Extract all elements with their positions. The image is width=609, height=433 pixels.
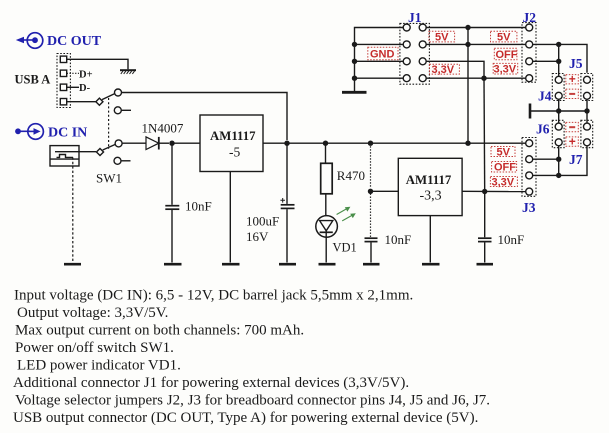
connector J4 (dotted outline) [552,74,564,101]
wire SW1 pole A to 5V rail (top run) [122,93,288,141]
wire 3,3V rail [462,190,525,192]
gnd line terminal bar [529,104,532,119]
wire junction to U1 input [172,142,200,144]
svg-text:USB output connector (DC OUT,: USB output connector (DC OUT, Type A) fo… [13,410,478,426]
switch SW1 pole A [96,98,103,105]
svg-text:D-: D- [79,83,91,94]
wire J4 pin2 to gnd line [558,99,560,111]
wire J1 row4 to J2 pin4 (3,3V) [426,77,526,79]
svg-text:J6: J6 [536,122,550,137]
svg-text:GND: GND [370,49,395,61]
svg-text:Input voltage (DC IN): 6,5 - 1: Input voltage (DC IN): 6,5 - 12V, DC bar… [14,288,413,304]
svg-text:1N4007: 1N4007 [142,121,184,136]
connector X1 DC barrel jack [50,146,79,166]
svg-text:5V: 5V [497,146,511,158]
svg-text:16V: 16V [246,229,269,244]
wire USB pin1 to shield ground [67,59,128,69]
wire 5V rail to U2 input (dotted drop) [370,143,372,188]
DC IN port symbol [15,124,43,140]
svg-text:+: + [569,72,576,86]
5V label (J3) [491,147,515,157]
3,3V label (J1 side) [430,64,460,74]
capacitor C1 10nF [171,143,173,205]
svg-text:LED power indicator VD1.: LED power indicator VD1. [17,358,181,374]
wire J3 pin2 to output net [533,158,559,160]
svg-text:+: + [569,134,576,148]
svg-text:AM1117: AM1117 [210,129,256,143]
svg-text:VD1: VD1 [333,241,357,255]
wire J1 row1 to J2 pin1 (5V) [426,27,526,29]
description text block [13,288,490,427]
connector J5 (dotted outline) [581,74,593,101]
svg-text:5V: 5V [435,32,449,44]
node R470 junction [323,141,328,146]
3,3V label (J2) [493,63,518,74]
node output net junctions (top) [556,42,561,47]
switch SW1 pole B [96,148,103,155]
ground (C4) [477,263,494,266]
wire J2 pin3 to J4 [533,60,559,62]
svg-text:Output voltage: 3,3V/5V.: Output voltage: 3,3V/5V. [17,305,168,321]
connector J7 (dotted outline) [581,120,593,147]
ground (C2) [279,263,296,266]
svg-text:Voltage selector jumpers J2, J: Voltage selector jumpers J2, J3 for brea… [15,393,490,409]
wire USB pin4 to SW1 pole A [67,101,96,103]
svg-text:J3: J3 [522,200,536,215]
node 3,3V tap junction [481,76,486,81]
wire 5V rail [263,142,526,144]
USB pin 1 [60,56,66,62]
GND label [368,47,398,60]
svg-text:J1: J1 [408,10,422,25]
svg-text:-3,3: -3,3 [420,189,442,204]
USB pin 4 [60,99,66,105]
connector J1 (2x4 header, dotted outline) [400,23,430,84]
USB pin 3 (D-) [60,84,66,90]
svg-text:AM1117: AM1117 [406,173,452,187]
capacitor C4 10nF [484,192,486,238]
node 5V rail junction [465,141,470,146]
svg-text:J4: J4 [538,89,552,104]
wire J7 pin2 to J3 row3 [559,146,587,176]
wire J3 pin3 to output net [533,174,559,176]
svg-text:10nF: 10nF [185,199,212,214]
plus label (J6/J7) [566,137,579,146]
svg-text:DC OUT: DC OUT [47,34,102,49]
wire J6 pin1 to gnd line [558,111,560,123]
plus label (J4/J5) [566,75,579,84]
wire mid gnd line [530,110,587,112]
svg-text:Power on/off switch SW1.: Power on/off switch SW1. [15,340,174,356]
svg-text:D+: D+ [79,69,93,80]
node C4 junction [482,189,487,194]
wire J6 pin2 to J3 row2 [558,146,560,159]
svg-text:DC IN: DC IN [48,126,87,141]
svg-text:10nF: 10nF [498,232,525,247]
svg-text:USB A: USB A [15,73,51,87]
5V label (J1 side) [429,31,455,42]
OFF label (J3) [492,162,517,173]
LED VD1 [316,216,338,238]
node gnd line junctions [556,108,561,113]
ground (U2) [422,263,440,266]
connector J2 (4-pin, dotted outline) [522,23,536,83]
minus label (J4/J5) [566,89,579,98]
wire J1 row2 to J2 pin2 (5V) [426,43,526,45]
OFF label (J2) [494,48,517,59]
svg-text:5V: 5V [497,32,511,44]
ground (C3) [363,263,380,266]
svg-text:Max output current on both cha: Max output current on both channels: 700… [15,323,304,339]
minus label (J6/J7) [566,122,579,131]
node output net junctions (bottom) [556,157,561,162]
wire 5V vertical drop [467,28,469,144]
node U2 feed junction (on 5V rail) [368,141,373,146]
diode 1N4007 [146,137,159,150]
svg-text:3,3V: 3,3V [492,176,515,188]
wire U1 ground pin [229,172,231,263]
wire U2 ground pin [429,216,431,263]
svg-text:OFF: OFF [496,49,518,61]
regulator U2 AM1117-3,3 [398,158,462,215]
ground (input) [64,263,81,266]
ground (J1 bus) [342,91,367,94]
SW1 mechanical link (dotted) [108,98,110,149]
DC OUT port symbol [16,33,43,49]
LED light arrows (green) [337,207,356,221]
resistor R470 [325,143,327,163]
ground (C1) [164,263,182,266]
chassis ground (USB shield) [120,69,136,71]
node input junction [169,141,174,146]
wire SW1 pole B to diode [122,142,146,144]
svg-text:OFF: OFF [494,162,516,174]
wire J5 pin2 to gnd line [586,99,588,111]
wire output net vertical [558,44,560,76]
svg-text:R470: R470 [337,168,365,183]
wire output net vertical (bottom) [558,159,560,175]
capacitor C2 100uF 16V (polarized) [286,143,288,204]
svg-text:100uF: 100uF [246,214,279,229]
svg-text:3,3V: 3,3V [494,64,517,76]
svg-text:SW1: SW1 [96,171,122,186]
svg-text:3,3V: 3,3V [432,64,455,76]
svg-text:J5: J5 [569,56,583,71]
node bus junctions [352,42,357,47]
svg-text:Additional connector J1 for po: Additional connector J1 for powering ext… [13,375,409,391]
node D- wire [67,86,79,88]
wire J7 pin1 to gnd line [586,111,588,123]
connector USB A (dotted outline) [57,54,70,108]
USB pin 2 (D+) [60,70,66,76]
wire J2 pin2 to J5 [533,44,587,72]
3,3V label (J3) [490,177,517,187]
svg-text:-5: -5 [229,145,240,160]
node 100uF junction [284,141,289,146]
ground (U1) [222,263,240,266]
wire J1 gnd bus [355,28,404,92]
wire J1 row3 (3,3V) [426,61,484,78]
wire jack sleeve to input ground (dashed) [72,157,74,262]
ground (VD1) [319,263,336,266]
svg-text:10nF: 10nF [385,232,412,247]
connector J6 (dotted outline) [552,120,564,147]
node 5V tap junctions [465,25,470,30]
connector J3 (4-pin, dotted outline) [522,138,536,197]
regulator U1 AM1117-5 [200,115,263,172]
svg-text:J7: J7 [569,152,583,167]
node D+ wire (dotted) [67,72,79,74]
node U2 input junction [368,189,373,194]
5V label (J2) [491,31,517,42]
capacitor C3 10nF [370,194,372,238]
wire 3,3V vertical drop [483,78,486,191]
